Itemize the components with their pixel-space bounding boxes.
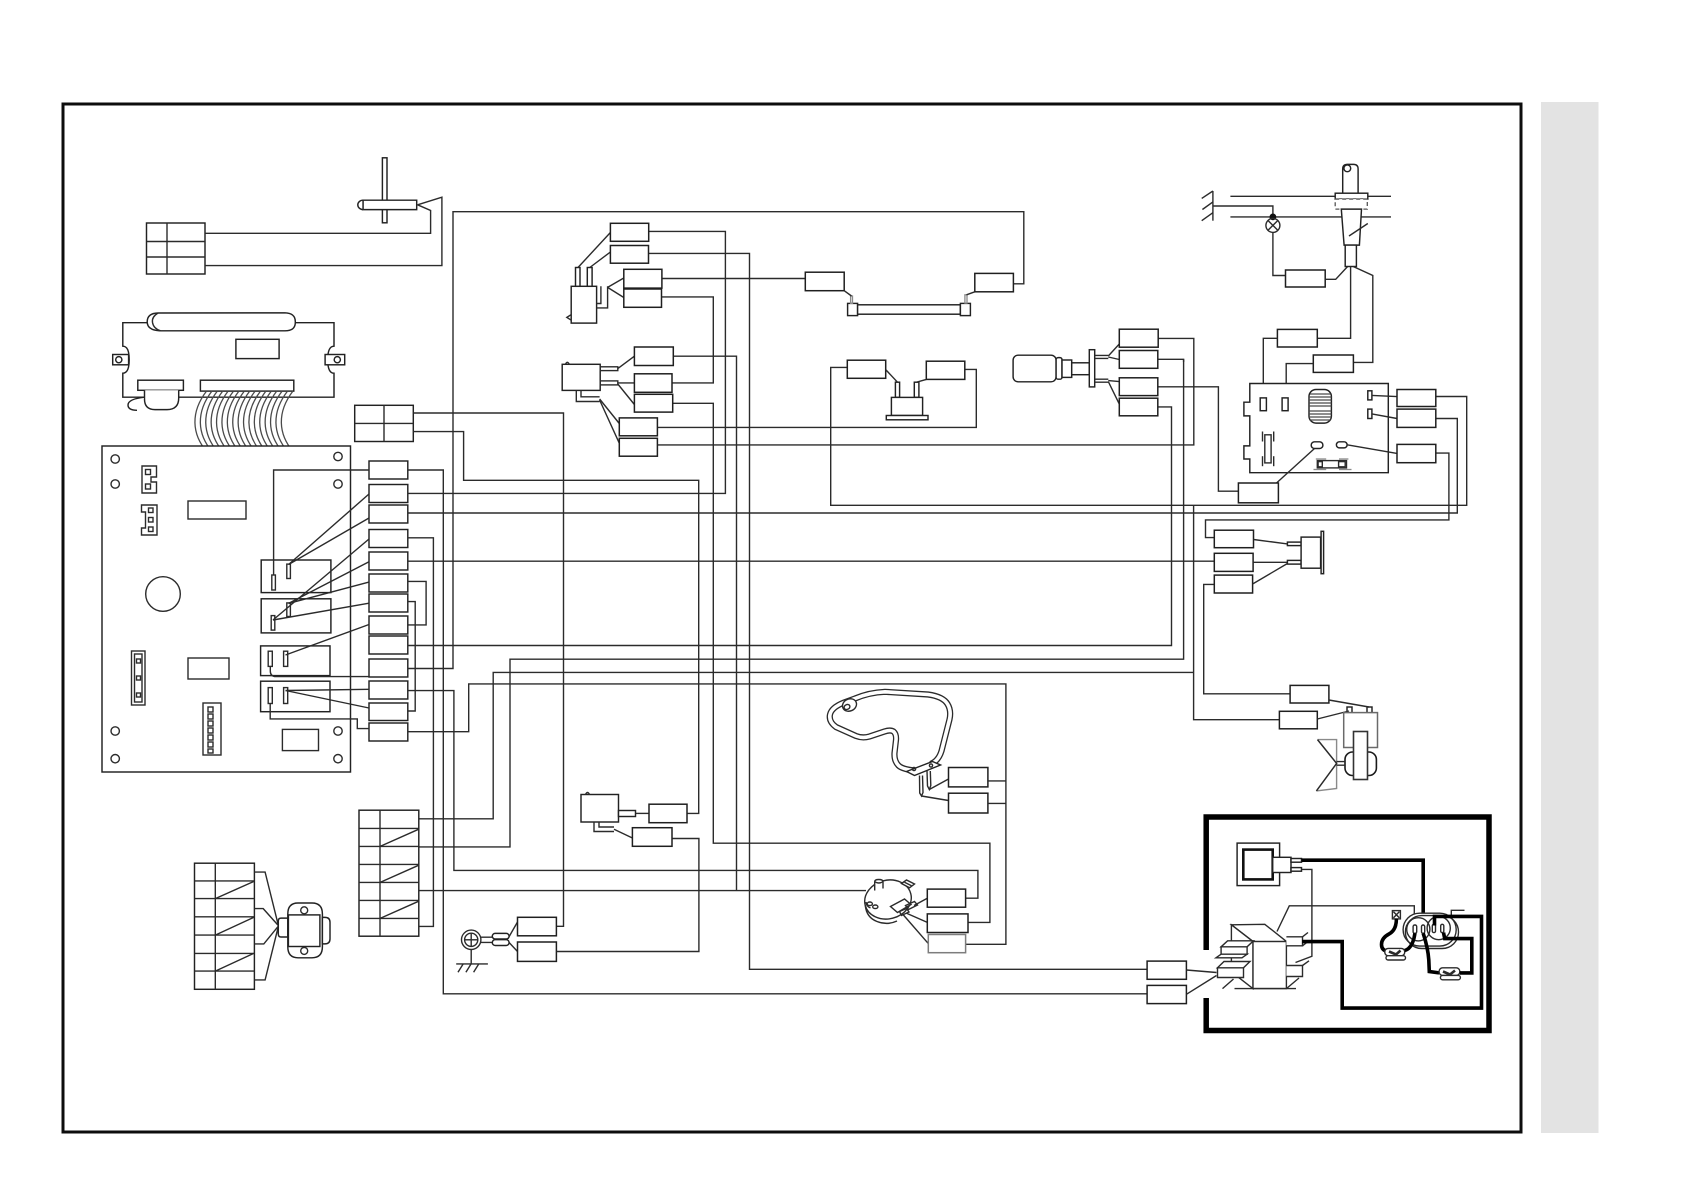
wire igniter left box to S1 <box>831 367 1467 505</box>
wire stub to box C <box>1108 381 1119 382</box>
wire CB11 to motor box M1 <box>408 691 978 899</box>
outlet X box <box>1392 911 1400 919</box>
DSI hook bracket <box>597 286 608 308</box>
mounting hole <box>111 455 119 463</box>
spark igniter left box <box>847 360 885 378</box>
oven sensor tip <box>1345 245 1356 266</box>
thermostat stub <box>619 811 636 817</box>
wire relay K2 pin to CB7 <box>273 603 369 620</box>
box T1 <box>1214 530 1253 548</box>
gas valve box D <box>1119 398 1158 416</box>
pressure switch top bump <box>565 362 569 364</box>
motor screw hole bottom <box>301 947 308 954</box>
wire 2x2 box row2 step <box>413 432 698 814</box>
board pin 1 <box>1260 398 1266 411</box>
broil terminal pin1 <box>920 776 924 797</box>
oven sensor cylinder <box>1343 164 1358 193</box>
wire box2 to TB1 <box>649 253 1148 969</box>
broil terminal pin2 <box>927 771 931 790</box>
wire box7 to M2 terminal <box>673 403 990 922</box>
door switch right box <box>975 273 1014 291</box>
wire TB2 to relay tab <box>1186 976 1216 995</box>
wire stack to motor pin w3 <box>254 926 278 944</box>
box M1 <box>927 889 965 907</box>
box4 <box>624 289 662 307</box>
relay K2 <box>261 599 331 633</box>
wire CB2 to box1 bus <box>408 231 726 493</box>
wire E2 stub to riser <box>988 802 1006 804</box>
wire CB13 to broil element loop <box>408 684 1006 944</box>
connector CN1 on PCB <box>142 466 157 493</box>
ribbon connector on display board <box>200 380 293 391</box>
thick wire prong1 to outlet <box>1302 860 1424 926</box>
box M1' fan <box>1290 685 1329 703</box>
wire stack row5 to convection motor <box>419 890 866 892</box>
board pin 2 <box>1282 398 1288 411</box>
middle connector stack <box>359 810 419 936</box>
ground symbol below screw <box>456 950 488 973</box>
mounting hole <box>111 727 119 735</box>
sensor slash mark <box>1349 224 1368 237</box>
power relay isometric body <box>1223 924 1300 988</box>
wire right box to bar pin <box>967 292 975 295</box>
connector column CB11 <box>369 681 408 699</box>
wire pad1 to box V1 <box>1277 449 1315 484</box>
speaker pin2 <box>1287 560 1301 564</box>
gas valve neck1 <box>1056 358 1062 380</box>
wire relay top diagonal to outlet <box>1277 906 1414 932</box>
spark electrode base <box>886 416 928 420</box>
box2' <box>649 804 687 823</box>
relay right tab upper <box>1286 933 1308 946</box>
oven sensor dashed housing <box>1335 199 1367 209</box>
box1 <box>610 223 648 241</box>
wire J1 pin3 to probe <box>205 197 442 265</box>
wire M2' to fan pin <box>1317 711 1349 719</box>
convection fan motor left pin <box>278 918 288 937</box>
power line 2 <box>1230 216 1391 218</box>
wire T1 to speaker pin1 <box>1254 540 1288 544</box>
heavy power box border <box>1206 817 1489 1031</box>
box S3 <box>1397 444 1436 462</box>
box2 <box>610 246 648 264</box>
IC U1 on PCB <box>188 501 246 519</box>
wire links to G2 <box>509 943 517 952</box>
oven outlet body <box>1403 913 1458 948</box>
box S1 <box>1397 390 1436 407</box>
motor screw hole top <box>301 907 308 914</box>
box R3 <box>1313 355 1353 372</box>
wire ground to junction <box>1213 206 1273 218</box>
thermostat component bottom middle <box>581 795 619 823</box>
wire left box to pin1 <box>886 370 898 383</box>
wire E1 stub to riser <box>988 780 1006 782</box>
door switch bar <box>858 305 961 314</box>
wire relay K1 pin to CB3 <box>289 518 369 565</box>
wire relay K1 pin to CB1 <box>274 470 369 575</box>
wire T3 to speaker pin2 <box>1253 564 1288 585</box>
wire J1 pin1 to probe <box>205 205 431 234</box>
broil terminal screws <box>912 767 915 770</box>
IC U3 on PCB <box>282 729 318 750</box>
wire CB9 to gas valve box D <box>408 407 1172 646</box>
spark control board outline <box>1244 384 1388 473</box>
outlet slots <box>1413 924 1444 933</box>
door switch bar left pin <box>851 296 853 303</box>
wire relay K4 pin to CB12 <box>286 691 370 709</box>
box3' <box>632 828 672 847</box>
wire stub to box A <box>1108 344 1119 356</box>
wire CB3 to S2 <box>408 419 1458 514</box>
ground chain link 2 <box>492 940 509 946</box>
wire gas valve box C to V1 <box>1158 387 1239 491</box>
wire hook to box8 <box>600 399 620 424</box>
wire R1 to sensor tip <box>1325 267 1347 280</box>
IC U2 on PCB <box>188 658 229 679</box>
wire hook to box3 <box>608 278 624 287</box>
gas valve stub lower <box>1095 379 1109 382</box>
DSI module body <box>571 286 596 323</box>
wire relay K4 pin to CB13 <box>270 704 369 729</box>
cooling fan motor pins <box>1347 707 1352 713</box>
ribbon cable <box>195 391 293 452</box>
box R2 <box>1277 329 1317 347</box>
convection fan motor body <box>288 903 323 958</box>
wire CB1 to bottom loop <box>408 470 1147 994</box>
board pad 2 <box>1336 442 1347 448</box>
wire hook to box3' <box>614 829 632 838</box>
gas valve body <box>1013 355 1056 382</box>
relay K4 <box>261 681 330 712</box>
wire S3 to T1 <box>1206 453 1449 537</box>
mounting hole <box>111 755 119 763</box>
wire stub1 to box5 <box>618 356 635 368</box>
thermostat bottom hook <box>594 822 614 832</box>
display board scroll top <box>147 313 295 331</box>
connector column CB7 <box>369 594 408 612</box>
bottom terminal lug <box>1439 968 1460 980</box>
box9 <box>619 438 657 456</box>
door switch bar right pin <box>965 295 967 303</box>
connector column CB4 <box>369 530 408 548</box>
mounting hole <box>334 755 342 763</box>
box T3 <box>1214 575 1252 593</box>
connector column CB13 <box>369 723 408 741</box>
board right pin 1 <box>1368 391 1372 400</box>
board jumper component <box>1314 459 1352 470</box>
gas valve box A <box>1119 329 1158 347</box>
gas valve stub upper <box>1095 355 1109 358</box>
buzzer circle on PCB <box>146 577 181 612</box>
wire stack to motor pin w2 <box>254 909 278 926</box>
wire box9 to gas valve box A <box>657 338 1193 445</box>
wire relay K3 pin to CB8 <box>286 625 370 656</box>
connector column CB1 <box>369 461 408 479</box>
wire right box to pin2 <box>917 379 927 382</box>
wire pin2 to box2 <box>590 252 611 268</box>
spark electrode pin1 <box>895 382 899 397</box>
spark electrode pin2 <box>914 382 919 397</box>
wire pin1 to box1 <box>578 233 610 268</box>
wire lamp to box R1 <box>1273 232 1286 275</box>
display board label rect <box>236 339 279 358</box>
pressure switch stub1 <box>600 367 618 371</box>
wire stub2 to box7 <box>618 384 635 405</box>
wire M1' to fan pin <box>1329 700 1369 707</box>
wire sensor to R2 <box>1317 267 1350 339</box>
wire stack row3 riser <box>419 359 1184 847</box>
power line 1 <box>1230 195 1391 197</box>
gas valve neck2 <box>1062 360 1072 377</box>
wire T3 to fan box M1' <box>1204 584 1290 693</box>
wire relay K2 pin to CB6 <box>289 582 369 603</box>
display board lower connector flap <box>128 380 183 410</box>
speaker pin1 <box>1287 542 1301 546</box>
wire right pin1 to S1 <box>1372 395 1397 396</box>
outlet small step wire <box>1451 910 1464 916</box>
box3 <box>624 269 662 288</box>
DSI module tab <box>567 315 571 321</box>
wire R3 to board pin2 <box>1286 364 1313 398</box>
wire motor to M2 <box>906 913 927 922</box>
temperature probe capsule <box>358 200 417 209</box>
door switch bar right cap <box>960 303 970 315</box>
wire R2 to board pin1 <box>1263 338 1277 398</box>
oven sensor flange <box>1335 193 1368 199</box>
motor stator block <box>288 915 320 947</box>
thin wire prong2 to relay tab <box>1296 869 1312 962</box>
wire CB5 to T2 <box>408 560 1215 562</box>
temperature probe mount bracket <box>382 158 387 223</box>
connector column CB10 <box>369 659 408 677</box>
connector column CB3 <box>369 505 408 523</box>
pressure switch bottom hook <box>576 390 599 401</box>
mounting hole <box>334 452 342 460</box>
box6 <box>634 374 672 393</box>
relay K1 <box>261 560 331 593</box>
broil element insulator ring <box>840 697 858 714</box>
connector column CB6 <box>369 574 408 592</box>
transformer plug body <box>1273 857 1291 872</box>
display board outline <box>123 323 334 398</box>
board right pin 2 <box>1368 409 1372 418</box>
humidity sensor motor body <box>861 875 916 924</box>
wire stub2 to box6 <box>618 382 635 384</box>
box G1 <box>518 917 557 936</box>
mounting hole <box>111 480 119 488</box>
box V1 <box>1238 483 1278 503</box>
speaker plate <box>1321 531 1324 573</box>
ground screw symbol <box>462 930 481 949</box>
connector CN4 on PCB <box>203 703 221 755</box>
wire stub to box2' <box>636 812 650 814</box>
thermostat top bump <box>586 793 590 795</box>
connector column CB2 <box>369 485 408 503</box>
pressure switch stub2 <box>600 381 618 385</box>
power transformer outer <box>1237 843 1280 886</box>
door switch left box <box>805 272 844 291</box>
wire box4 to box6 bus <box>662 297 714 383</box>
box R1 <box>1286 270 1326 287</box>
oven lamp <box>1266 218 1280 232</box>
thick wire lug to outlet right slot <box>1444 933 1472 973</box>
wire relay K2 pin to CB4 <box>273 539 369 620</box>
wire hook to box4 <box>608 287 624 297</box>
speaker body <box>1301 537 1321 568</box>
display board left ear <box>113 355 129 365</box>
wire box3 to door switch box <box>662 278 805 280</box>
motor terminal tab2 <box>900 909 910 916</box>
wire CB4 to stack row7 <box>408 538 434 927</box>
box TB2 <box>1147 985 1186 1003</box>
left connector stack <box>195 863 255 989</box>
box T2 <box>1214 553 1253 571</box>
wire relay K1 pin to CB2 <box>289 494 369 565</box>
wire relay K2 pin to CB5 <box>289 562 369 604</box>
wire stub to box B <box>1108 357 1119 360</box>
connector J1 top-left <box>147 223 206 274</box>
door switch bar left cap <box>848 303 858 315</box>
wire stack row1 riser <box>419 672 1194 818</box>
chassis ground top right <box>1202 191 1213 221</box>
wire right pin2 to S2 <box>1372 414 1397 419</box>
thick wire outlet left slot to lamp holder <box>1400 933 1415 951</box>
wire hook to box9 <box>600 400 620 443</box>
motor right pad <box>322 917 330 944</box>
oven sensor taper <box>1341 209 1361 245</box>
outlet left circle <box>1407 918 1430 941</box>
pressure switch body <box>562 364 600 390</box>
relay K3 <box>261 646 330 676</box>
spark igniter right box <box>926 361 965 379</box>
box5 <box>634 347 673 366</box>
gas valve box C <box>1119 378 1158 396</box>
DSI module pin 2 <box>587 268 592 287</box>
wire motor to M1 <box>914 898 927 905</box>
relay left tab lower <box>1218 962 1251 978</box>
wire CB7 to CB12 <box>408 602 415 711</box>
transformer prong 1 <box>1291 859 1302 863</box>
ground link bars <box>481 937 492 942</box>
connector CN3 on PCB <box>132 651 146 705</box>
box G2 <box>518 942 557 961</box>
wire M2' riser <box>1194 505 1280 719</box>
wire CB10 to door switch loop <box>408 212 1024 669</box>
spark electrode body <box>891 397 922 415</box>
wire links to G1 <box>509 922 517 937</box>
broil terminal plate <box>907 762 941 776</box>
box TB1 <box>1147 961 1186 979</box>
display board right ear <box>325 355 345 365</box>
thick wire outlet slot to bottom lug <box>1423 933 1439 973</box>
ground chain link 1 <box>492 933 509 939</box>
wire sensor to R3 <box>1353 267 1373 363</box>
wire T2 to speaker pin2 <box>1253 561 1287 563</box>
wire stack to motor pin w1 <box>254 872 278 925</box>
wire pad2 to S3 <box>1347 445 1397 454</box>
wire 2x2 box row1 to vertical bus <box>413 413 563 926</box>
wire CB6 to CB8 <box>408 581 426 625</box>
relay left tab upper <box>1216 941 1254 958</box>
outlet right circle <box>1427 917 1450 940</box>
lamp holder connector <box>1385 948 1406 960</box>
broil element tube <box>830 692 950 771</box>
connector block 2x2 <box>355 405 414 441</box>
cooling fan motor body <box>1344 713 1378 780</box>
box M3 <box>928 935 965 953</box>
wire pin2 to E1 <box>929 779 948 790</box>
relay right tab lower <box>1286 961 1309 977</box>
gray sidebar <box>1541 102 1599 1133</box>
box E2 <box>949 793 988 813</box>
wire gas valve box B riser <box>1183 359 1185 362</box>
board heatsink <box>1309 390 1331 424</box>
wire stack to motor pin w4 <box>254 927 278 980</box>
gas valve box B <box>1119 351 1158 369</box>
wire stub to box D <box>1108 382 1119 405</box>
connector column CB9 <box>369 636 408 654</box>
box8 <box>619 418 657 436</box>
main control PCB outline <box>102 446 351 772</box>
wire left box to bar pin <box>844 291 851 296</box>
wire G2 to box3' chain <box>556 839 699 952</box>
thick wire outlet right loop <box>1302 916 1482 1008</box>
board pad 1 <box>1311 442 1323 449</box>
motor terminal tab1 <box>906 902 918 910</box>
thick wire X box to lamp holder <box>1382 919 1397 952</box>
gas valve flange <box>1089 350 1094 387</box>
box E1 <box>949 768 988 787</box>
junction dot <box>1270 214 1277 221</box>
DSI module pin 1 <box>576 268 581 287</box>
board fuse <box>1263 432 1274 467</box>
wire TB1 to relay tab <box>1186 970 1216 973</box>
wire box8 to igniter right box <box>657 369 976 427</box>
connector CN2 on PCB <box>142 505 158 535</box>
gas valve shaft <box>1072 363 1090 375</box>
outer border frame <box>63 104 1521 1132</box>
mounting hole <box>334 480 342 488</box>
transformer prong 2 <box>1291 868 1302 872</box>
power transformer core <box>1243 850 1272 880</box>
wire motor to M3 <box>903 915 928 944</box>
box S2 <box>1397 409 1436 427</box>
wire box5 riser <box>673 356 736 890</box>
box M2' fan <box>1279 711 1317 729</box>
connector column CB5 <box>369 552 408 570</box>
box7 <box>634 394 672 412</box>
wire relay K3 pin to CB10 <box>270 666 369 676</box>
connector column CB8 <box>369 616 408 634</box>
cooling fan blades <box>1316 740 1345 791</box>
ribbon connector on main board <box>201 452 294 462</box>
connector column CB12 <box>369 703 408 721</box>
box M2 <box>927 914 968 933</box>
wire pin1 to E2 <box>922 796 949 801</box>
mounting hole <box>334 727 342 735</box>
wire relay K4 pin to CB11 <box>286 689 370 690</box>
